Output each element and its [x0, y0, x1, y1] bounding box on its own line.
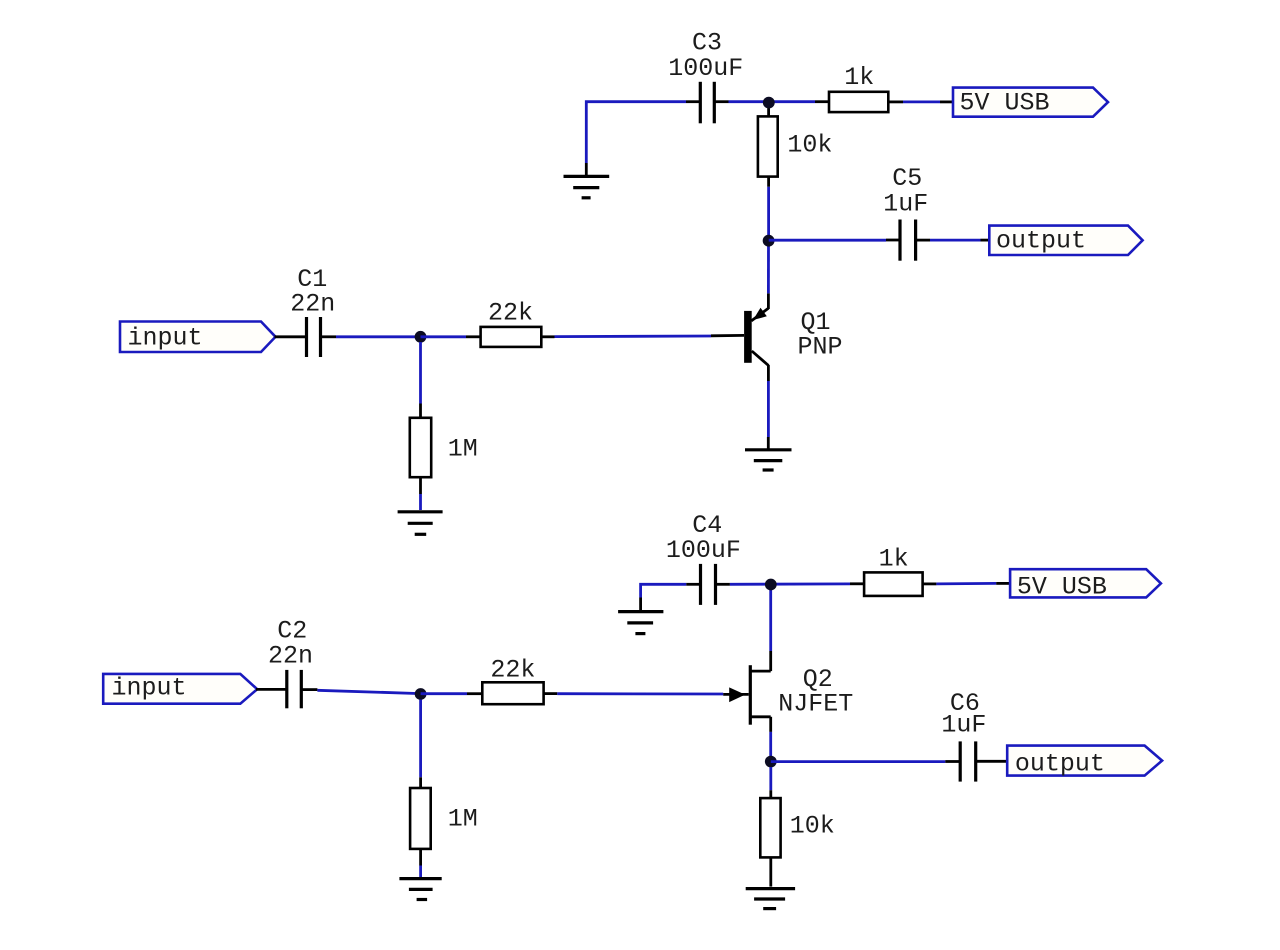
wire 1M to ground [419, 477, 422, 510]
svg-text:PNP: PNP [798, 333, 843, 362]
wire 22k to Q2 gate [544, 692, 749, 696]
resistor 1k (top) [829, 63, 888, 112]
capacitor C1 22n [290, 265, 336, 357]
net flag input (top) [120, 322, 276, 353]
wire ground up and right to C4 [641, 584, 701, 611]
resistor 22k (top) [481, 299, 542, 347]
junction node E (bottom supply node) [765, 579, 777, 591]
svg-text:22k: 22k [490, 656, 535, 685]
wire node D down to 1M [419, 700, 422, 789]
resistor 10k (bottom) [760, 798, 834, 857]
wire input flag to C2 [256, 688, 286, 691]
wire node F to C6 [771, 760, 960, 763]
svg-text:C5: C5 [892, 164, 922, 193]
svg-text:C3: C3 [692, 28, 722, 57]
resistor 1M (bottom) [410, 788, 478, 849]
ground (under 1M bottom) [399, 879, 441, 900]
wire 10k down to node C [767, 177, 770, 241]
wire C1 to node A [336, 335, 421, 338]
wire 1k to 5V USB flag [888, 101, 953, 104]
wire 1M to ground [419, 849, 422, 877]
net flag output (top) [989, 226, 1142, 256]
svg-text:output: output [996, 227, 1086, 256]
svg-text:5V USB: 5V USB [960, 89, 1050, 118]
wire node F down to 10k [769, 767, 772, 798]
resistor 22k (bottom) [482, 656, 543, 705]
junction node B (top supply node) [763, 97, 775, 109]
svg-text:1uF: 1uF [883, 190, 928, 219]
svg-text:input: input [128, 324, 203, 353]
wire Q2 drain up to node E [769, 585, 772, 671]
svg-text:10k: 10k [790, 811, 835, 840]
capacitor C2 22n [268, 616, 317, 708]
wire C5 to output flag [930, 239, 989, 242]
wire 22k to Q1 base [541, 335, 744, 336]
svg-text:output: output [1015, 749, 1105, 778]
capacitor C5 1uF [883, 164, 930, 261]
wire node D to 22k [421, 692, 483, 695]
ground (under Q1) [745, 450, 792, 470]
net flag output (bottom) [1007, 746, 1162, 779]
wire node A to 22k [421, 335, 467, 338]
resistor 1k (bottom) [864, 544, 923, 596]
wire 10k to ground [769, 857, 772, 886]
wire node C to C5 [769, 239, 900, 242]
net flag 5V USB (bottom) [1010, 569, 1161, 601]
wire C4 to node E to 1k [730, 582, 864, 585]
ground (under 1M top) [398, 512, 443, 535]
transistor Q1 PNP [744, 308, 842, 366]
wire Q1 emitter up to output node [767, 242, 770, 309]
svg-text:22n: 22n [268, 642, 313, 671]
junction node C (top output node) [763, 235, 775, 247]
ground (left of C3) [564, 176, 610, 197]
ground (left of C4) [618, 612, 663, 634]
resistor 10k (top) [758, 116, 833, 176]
svg-text:100uF: 100uF [668, 54, 743, 83]
svg-text:5V USB: 5V USB [1017, 573, 1107, 602]
junction node A (top input node) [415, 331, 427, 343]
svg-text:22k: 22k [488, 299, 533, 328]
capacitor C6 1uF [941, 689, 1007, 782]
svg-text:1M: 1M [448, 805, 478, 834]
wire Q1 collector down to ground [767, 365, 770, 450]
wire input flag to C1 [275, 335, 307, 338]
junction node D (bottom input node) [415, 688, 427, 700]
junction node F (bottom output node) [765, 756, 777, 768]
svg-text:1k: 1k [844, 63, 874, 92]
net flag input (bottom) [103, 674, 257, 704]
svg-text:10k: 10k [787, 130, 832, 159]
ground (under 10k bottom) [746, 889, 795, 909]
resistor 1M (top) [410, 418, 478, 477]
wire node B down to 10k [767, 108, 770, 116]
svg-text:1k: 1k [879, 544, 909, 573]
svg-text:input: input [112, 674, 187, 703]
wire 1k to 5V USB flag [923, 582, 1011, 585]
svg-text:100uF: 100uF [666, 536, 741, 565]
svg-text:1M: 1M [448, 434, 478, 463]
svg-text:22n: 22n [290, 290, 335, 319]
wire node A down to 1M [419, 342, 422, 418]
svg-text:1uF: 1uF [941, 711, 986, 740]
capacitor C3 100uF [668, 28, 743, 123]
wire ground up and right to C3 [586, 102, 700, 177]
capacitor C4 100uF [666, 511, 741, 605]
wire C2 to node D [317, 690, 420, 693]
svg-text:NJFET: NJFET [778, 689, 853, 718]
transistor Q2 NJFET [729, 665, 853, 725]
net flag 5V USB (top) [953, 88, 1108, 118]
wire Q2 source down to node F [769, 717, 772, 762]
wire C3 to node B to 1k [729, 100, 830, 103]
